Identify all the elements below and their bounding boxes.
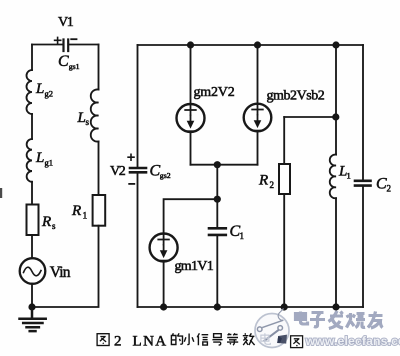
svg-text:gs2: gs2 bbox=[160, 171, 171, 180]
caption 号 bbox=[212, 334, 222, 345]
wire: Ls to R1 bbox=[98, 142, 100, 196]
resistor Rs bbox=[27, 205, 39, 236]
junction bottom rail / L1 bbox=[332, 303, 339, 310]
wire: Ls branch upper bbox=[98, 45, 100, 90]
junction top rail / gm2V2 bbox=[187, 41, 194, 48]
wire: Rs to Vin bbox=[31, 235, 33, 258]
caption 信 bbox=[197, 333, 208, 345]
caption 图 final bbox=[291, 336, 303, 348]
wire: node joining sources bbox=[191, 164, 258, 166]
wire: gm2V2 lower bbox=[190, 132, 192, 165]
svg-text:L: L bbox=[35, 81, 44, 97]
wire: gmb2Vsb2 lower bbox=[257, 131, 259, 164]
wire: center column lower bbox=[216, 236, 218, 307]
wire: left circuit top left segment bbox=[32, 44, 63, 46]
wire: main left edge lower bbox=[137, 174, 139, 308]
svg-text:g2: g2 bbox=[45, 89, 54, 99]
svg-text:s: s bbox=[52, 221, 56, 231]
junction top rail / gmb2Vsb2 bbox=[254, 41, 261, 48]
label plus of V2 bbox=[127, 154, 135, 162]
wire: main circuit top rail bbox=[138, 44, 364, 46]
inductor L1 bbox=[330, 155, 336, 199]
wire: C2 branch upper bbox=[362, 45, 364, 180]
友 bbox=[368, 312, 383, 329]
wire: left circuit top right segment bbox=[69, 44, 99, 46]
wire: gmb2Vsb2 branch upper bbox=[257, 45, 259, 104]
svg-text:V1: V1 bbox=[58, 15, 74, 30]
watermark logo zipper diagonal lower bbox=[264, 330, 279, 341]
svg-text:L: L bbox=[77, 110, 86, 126]
wire: left branch above Rs bbox=[31, 182, 33, 205]
wire: L1 lower bbox=[335, 198, 337, 307]
svg-text:s: s bbox=[86, 117, 90, 127]
wire: R2 upper bbox=[283, 117, 285, 164]
watermark logo circle bbox=[255, 314, 289, 348]
wire: left branch upper bbox=[31, 45, 33, 71]
scan artifact left edge bbox=[0, 188, 2, 198]
wire: main bottom rail bbox=[138, 306, 364, 308]
watermark logo squiggle bbox=[278, 309, 283, 321]
capacitor Cgs1 bbox=[64, 40, 69, 52]
svg-text:Vin: Vin bbox=[50, 264, 71, 281]
发 bbox=[329, 311, 344, 329]
svg-text:2: 2 bbox=[270, 180, 275, 190]
label minus of V1 bbox=[70, 38, 77, 40]
junction bottom rail / gm1V1 bbox=[160, 303, 167, 310]
capacitor C2 bbox=[355, 181, 371, 186]
resistor R1 bbox=[93, 195, 106, 226]
wire: to gm1V1 bbox=[164, 199, 218, 233]
wire: R2 lower bbox=[283, 194, 285, 307]
inductor Lg1 bbox=[27, 139, 32, 182]
junction R2 top / L1 branch bbox=[332, 113, 339, 120]
svg-text:gmb2Vsb2: gmb2Vsb2 bbox=[267, 89, 325, 104]
wire: center column upper bbox=[216, 165, 218, 227]
svg-text:V2: V2 bbox=[110, 164, 126, 179]
svg-text:1: 1 bbox=[83, 212, 88, 222]
svg-text:g1: g1 bbox=[45, 158, 54, 168]
svg-text:R: R bbox=[71, 203, 81, 219]
svg-text:L: L bbox=[35, 150, 44, 166]
resistor R2 bbox=[279, 164, 290, 194]
watermark logo zipper diagonal upper bbox=[262, 320, 283, 327]
svg-text:gm1V1: gm1V1 bbox=[175, 259, 214, 274]
svg-text:1: 1 bbox=[347, 171, 351, 181]
label minus of V2 bbox=[128, 183, 135, 185]
junction node X bbox=[214, 161, 221, 168]
wire: left branch between Lg2 and Lg1 bbox=[31, 114, 33, 139]
svg-text:1: 1 bbox=[240, 231, 245, 241]
watermark text highlight overlay bbox=[296, 311, 383, 329]
子 bbox=[310, 313, 325, 327]
capacitor Cgs2 bbox=[130, 168, 146, 172]
watermark logo pen nib bbox=[277, 335, 287, 344]
svg-text:R: R bbox=[41, 214, 51, 230]
wire: C2 branch lower bbox=[362, 187, 364, 307]
junction node to gm1V1 bbox=[214, 196, 221, 203]
caption 的 bbox=[171, 333, 182, 344]
caption 等 bbox=[227, 333, 238, 345]
svg-text:2: 2 bbox=[387, 184, 392, 194]
svg-text:2: 2 bbox=[114, 334, 122, 350]
watermark logo ring A bbox=[257, 327, 262, 332]
wire: main left edge upper (to Cgs2) bbox=[137, 45, 139, 167]
svg-text:gs1: gs1 bbox=[69, 62, 80, 71]
svg-text:R: R bbox=[258, 173, 268, 189]
烧 bbox=[347, 313, 355, 328]
junction bottom rail / center bbox=[214, 303, 221, 310]
电 bbox=[296, 312, 308, 325]
source Vin bbox=[20, 258, 46, 284]
junction bottom rail / R2 bbox=[281, 303, 288, 310]
svg-text:LNA: LNA bbox=[133, 334, 168, 350]
source gm2V2 bbox=[177, 104, 205, 132]
watermark text 电子发烧友 bbox=[296, 311, 383, 329]
junction top rail / L1 bbox=[332, 41, 339, 48]
caption 图 bbox=[97, 334, 109, 346]
wire: R2 top horizontal bbox=[284, 116, 336, 118]
wire: gm2V2 branch upper bbox=[190, 45, 192, 104]
inductor Lg2 bbox=[27, 70, 33, 114]
label plus of V1 bbox=[54, 37, 62, 44]
svg-text:C: C bbox=[58, 53, 69, 70]
caption 小 bbox=[184, 334, 194, 345]
svg-text:gm2V2: gm2V2 bbox=[194, 85, 235, 100]
inductor Ls bbox=[91, 89, 99, 141]
caption 电 faint bbox=[261, 333, 270, 344]
wire: gm1V1 lower bbox=[163, 262, 165, 308]
svg-text:C: C bbox=[376, 176, 387, 193]
junction ground node bbox=[28, 303, 35, 310]
svg-text:www.elecfans.com: www.elecfans.com bbox=[305, 334, 400, 348]
wire: Vin to ground node bbox=[31, 284, 33, 307]
watermark logo ring B bbox=[278, 326, 283, 331]
caption 效 bbox=[243, 333, 255, 345]
wire: L1 branch upper bbox=[335, 45, 337, 155]
source gmb2Vsb2 bbox=[244, 104, 272, 132]
wire: R1 to bottom bbox=[32, 226, 99, 307]
source gm1V1 bbox=[150, 234, 178, 262]
capacitor C1 bbox=[209, 228, 226, 235]
ground bbox=[20, 307, 46, 331]
